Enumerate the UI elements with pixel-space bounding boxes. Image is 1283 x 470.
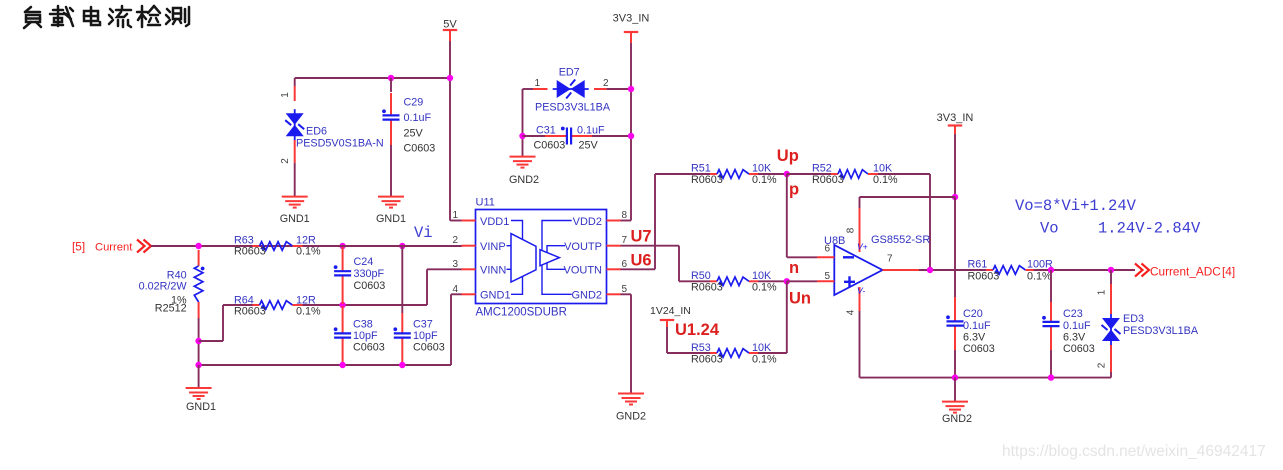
svg-text:1: 1 bbox=[1097, 289, 1108, 295]
wire GND1 rail bbox=[199, 294, 462, 365]
svg-text:PESD5V0S1BA-N: PESD5V0S1BA-N bbox=[296, 138, 384, 150]
net label n bbox=[789, 259, 799, 277]
formula text Vo range bbox=[1040, 220, 1201, 238]
wire ED6 to GND1 bbox=[294, 163, 296, 197]
svg-text:25V: 25V bbox=[404, 128, 424, 140]
svg-text:6.3V: 6.3V bbox=[963, 332, 986, 344]
port [5] Current bbox=[72, 240, 151, 254]
svg-text:Up: Up bbox=[777, 147, 799, 165]
resistor R64 12R bbox=[234, 295, 321, 318]
ground GND1 under ED6 bbox=[280, 197, 310, 225]
svg-text:4: 4 bbox=[846, 309, 857, 315]
wire 3V3_IN right vertical bbox=[954, 134, 956, 197]
net label Vi bbox=[414, 224, 433, 242]
wire R61 to output port bbox=[1034, 269, 1136, 271]
svg-text:GND2: GND2 bbox=[571, 290, 602, 302]
title text 负载电流检测 bbox=[24, 6, 189, 28]
svg-text:GND2: GND2 bbox=[616, 411, 646, 423]
svg-text:R0603: R0603 bbox=[968, 271, 1000, 283]
svg-text:C0603: C0603 bbox=[1063, 343, 1095, 355]
svg-text:GND1: GND1 bbox=[280, 213, 310, 225]
svg-text:VOUTP: VOUTP bbox=[564, 241, 602, 253]
svg-text:GND2: GND2 bbox=[942, 413, 972, 425]
resistor R51 10K bbox=[691, 163, 777, 187]
wire Current input bbox=[151, 245, 462, 247]
wire U11 pin5 to GND2 bbox=[621, 294, 632, 393]
svg-text:2: 2 bbox=[603, 78, 609, 89]
junction 5V-vertical bbox=[447, 75, 453, 81]
svg-text:6: 6 bbox=[824, 244, 830, 255]
svg-text:R52: R52 bbox=[812, 163, 832, 175]
svg-text:0.02R/2W: 0.02R/2W bbox=[139, 281, 188, 293]
svg-text:R50: R50 bbox=[691, 270, 711, 282]
wire ED7 left vertical bbox=[522, 89, 524, 157]
wire 5V horizontal rail to ED6/C29 bbox=[295, 78, 450, 86]
svg-text:C24: C24 bbox=[354, 256, 374, 268]
wire U11 pin6 to R51 bbox=[621, 174, 711, 269]
op-amp U11 AMC1200SDUBR bbox=[462, 197, 621, 319]
svg-text:0.1uF: 0.1uF bbox=[404, 112, 432, 124]
svg-text:U6: U6 bbox=[631, 252, 652, 270]
svg-text:C0603: C0603 bbox=[354, 280, 386, 292]
junction C37 top bbox=[399, 243, 405, 249]
wire C29 to GND1 bbox=[390, 145, 392, 197]
capacitor C23 0.1uF bbox=[1042, 270, 1095, 378]
net label Un bbox=[789, 290, 811, 308]
svg-text:330pF: 330pF bbox=[354, 268, 385, 280]
wire R63 to pin2 bbox=[303, 245, 463, 247]
svg-text:3: 3 bbox=[452, 259, 458, 270]
svg-text:Current: Current bbox=[95, 242, 133, 254]
wire R64 to U11 pin3 bbox=[303, 269, 463, 305]
svg-text:U7: U7 bbox=[631, 228, 652, 246]
junction ED7-3V3_IN bbox=[628, 86, 634, 92]
wire GND2 rail right bbox=[860, 377, 1112, 379]
ground GND1 bottom left bbox=[186, 388, 216, 413]
svg-text:GND1: GND1 bbox=[186, 401, 216, 413]
svg-text:C23: C23 bbox=[1063, 308, 1083, 320]
watermark bbox=[1002, 443, 1266, 460]
svg-text:Vo=8*Vi+1.24V: Vo=8*Vi+1.24V bbox=[1015, 197, 1137, 215]
svg-text:V-: V- bbox=[857, 286, 865, 296]
wire R53 to 1V24_IN bbox=[667, 327, 710, 353]
svg-text:VDD1: VDD1 bbox=[480, 216, 509, 228]
svg-text:R0603: R0603 bbox=[234, 306, 266, 318]
svg-text:C29: C29 bbox=[404, 97, 424, 109]
svg-text:https://blog.csdn.net/weixin_4: https://blog.csdn.net/weixin_46942417 bbox=[1002, 443, 1266, 460]
svg-text:1V24_IN: 1V24_IN bbox=[650, 305, 691, 317]
svg-text:[4]: [4] bbox=[1222, 265, 1235, 279]
svg-text:4: 4 bbox=[452, 284, 458, 295]
junction C24 top bbox=[339, 243, 345, 249]
svg-text:ED6: ED6 bbox=[306, 126, 327, 138]
wire V- to GND rail bbox=[859, 311, 861, 378]
junction output-feedback bbox=[927, 267, 933, 273]
wire R50 to node n bbox=[758, 280, 787, 282]
svg-text:VINP: VINP bbox=[480, 241, 506, 253]
svg-text:R0603: R0603 bbox=[691, 354, 723, 366]
svg-text:0.1%: 0.1% bbox=[296, 306, 321, 318]
wire V+ supply to op-amp pin8 bbox=[860, 197, 956, 208]
svg-text:GND2: GND2 bbox=[509, 174, 539, 186]
junction V+ supply bbox=[952, 194, 958, 200]
net label U7 bbox=[631, 228, 652, 246]
svg-text:AMC1200SDUBR: AMC1200SDUBR bbox=[476, 307, 567, 319]
power symbol 3V3_IN left bbox=[613, 13, 650, 44]
resistor R53 10K bbox=[691, 342, 777, 366]
junction rail-C20-GND2 bbox=[952, 374, 958, 380]
svg-text:GND1: GND1 bbox=[376, 213, 406, 225]
svg-text:GND1: GND1 bbox=[480, 290, 511, 302]
net label p bbox=[789, 181, 799, 199]
svg-text:VOUTN: VOUTN bbox=[564, 265, 603, 277]
svg-text:VINN: VINN bbox=[480, 265, 506, 277]
svg-text:R0603: R0603 bbox=[234, 246, 266, 258]
svg-text:R61: R61 bbox=[968, 259, 988, 271]
power symbol 5V bbox=[443, 19, 458, 42]
wire node n to op-amp pin5 bbox=[787, 280, 817, 282]
svg-text:10pF: 10pF bbox=[413, 330, 438, 342]
svg-text:6.3V: 6.3V bbox=[1063, 332, 1086, 344]
svg-text:3V3_IN: 3V3_IN bbox=[613, 13, 650, 25]
svg-text:5: 5 bbox=[622, 284, 628, 295]
svg-text:C38: C38 bbox=[353, 319, 373, 331]
svg-text:2: 2 bbox=[452, 235, 458, 246]
svg-text:10K: 10K bbox=[752, 342, 772, 354]
svg-text:5: 5 bbox=[824, 271, 830, 282]
ground GND2 under U11 bbox=[616, 394, 646, 423]
svg-text:C31: C31 bbox=[536, 125, 556, 137]
power symbol 3V3_IN right bbox=[937, 112, 974, 134]
svg-text:25V: 25V bbox=[579, 140, 599, 152]
ground GND2 under op-amp bbox=[942, 402, 972, 425]
svg-text:U11: U11 bbox=[476, 197, 495, 209]
svg-text:R2512: R2512 bbox=[155, 303, 187, 315]
svg-text:Vi: Vi bbox=[414, 224, 433, 242]
wire GND2 stem right bbox=[954, 378, 956, 402]
svg-text:3V3_IN: 3V3_IN bbox=[937, 112, 974, 124]
svg-text:[5]: [5] bbox=[72, 240, 85, 254]
svg-text:0.1%: 0.1% bbox=[873, 174, 898, 186]
svg-text:C37: C37 bbox=[413, 319, 433, 331]
svg-text:C0603: C0603 bbox=[963, 343, 995, 355]
svg-text:8: 8 bbox=[846, 227, 857, 233]
net label Up bbox=[777, 147, 799, 165]
junction rail-R40 bbox=[195, 362, 201, 368]
svg-text:0.1%: 0.1% bbox=[1027, 271, 1052, 283]
svg-text:C0603: C0603 bbox=[353, 342, 385, 354]
svg-text:p: p bbox=[789, 181, 799, 199]
wire GND1 stem bbox=[198, 365, 200, 388]
formula text Vo=8*Vi+1.24V bbox=[1015, 197, 1137, 215]
junction node Up bbox=[784, 171, 790, 177]
svg-text:1: 1 bbox=[280, 92, 291, 98]
svg-text:VDD2: VDD2 bbox=[573, 216, 602, 228]
svg-text:2: 2 bbox=[280, 158, 291, 164]
svg-text:0.1%: 0.1% bbox=[752, 174, 777, 186]
wire node p to op-amp pin6 bbox=[787, 174, 817, 257]
svg-text:U1.24: U1.24 bbox=[675, 321, 720, 339]
junction 5V-C29 bbox=[388, 75, 394, 81]
wire 5V vertical to U11 pin1 bbox=[450, 41, 462, 221]
svg-text:C20: C20 bbox=[963, 308, 983, 320]
svg-text:0.1%: 0.1% bbox=[296, 246, 321, 258]
diode ED3 PESD3V3L1BA bbox=[1097, 270, 1199, 378]
junction ED3 top bbox=[1108, 267, 1114, 273]
svg-text:0.1%: 0.1% bbox=[752, 282, 777, 294]
wire R52 to output (feedback) bbox=[878, 174, 930, 270]
svg-text:1: 1 bbox=[452, 210, 458, 221]
svg-text:0.1uF: 0.1uF bbox=[1063, 320, 1091, 332]
pin numbers U8B bbox=[824, 227, 893, 315]
svg-text:n: n bbox=[789, 259, 799, 277]
port Current_ADC [4] bbox=[1135, 264, 1235, 279]
net label U6 bbox=[631, 252, 652, 270]
svg-text:R0603: R0603 bbox=[691, 282, 723, 294]
resistor R61 100R bbox=[968, 259, 1054, 283]
svg-text:1: 1 bbox=[535, 78, 541, 89]
wire R64 left leg bbox=[199, 305, 253, 341]
resistor R52 10K feedback bbox=[787, 163, 898, 187]
net label U1.24 bbox=[675, 321, 720, 339]
capacitor C20 0.1uF bbox=[946, 197, 995, 378]
svg-text:0.1uF: 0.1uF bbox=[963, 320, 991, 332]
pin numbers U11 left bbox=[452, 210, 458, 295]
resistor R40 0.02R/2W shunt bbox=[139, 250, 205, 318]
svg-text:0.1%: 0.1% bbox=[752, 354, 777, 366]
svg-text:10pF: 10pF bbox=[353, 330, 378, 342]
capacitor C29 0.1uF bbox=[382, 78, 435, 155]
diode ED6 PESD5V0S1BA-N bbox=[280, 86, 384, 164]
wire R40 bottom bbox=[198, 318, 200, 365]
capacitor C24 330pF bbox=[334, 247, 386, 304]
pin numbers U11 right bbox=[622, 210, 628, 295]
capacitor C37 10pF bbox=[393, 246, 444, 364]
junction C31-3V3_IN bbox=[628, 133, 634, 139]
svg-text:GS8552-SR: GS8552-SR bbox=[871, 234, 930, 246]
power symbol 1V24_IN bbox=[650, 305, 691, 327]
junction C31 left bbox=[519, 133, 525, 139]
svg-text:2: 2 bbox=[1097, 362, 1108, 368]
svg-text:C0603: C0603 bbox=[534, 140, 566, 152]
svg-text:1.24V-2.84V: 1.24V-2.84V bbox=[1098, 220, 1201, 238]
junction rail-C38 bbox=[339, 362, 345, 368]
ground GND1 under C29 bbox=[376, 197, 406, 225]
junction rail-C37 bbox=[399, 362, 405, 368]
svg-text:ED7: ED7 bbox=[559, 67, 580, 79]
svg-text:10K: 10K bbox=[752, 163, 772, 175]
svg-text:R51: R51 bbox=[691, 163, 711, 175]
svg-text:Un: Un bbox=[789, 290, 811, 308]
junction node n bbox=[784, 278, 790, 284]
wire op-amp output bbox=[919, 269, 986, 271]
capacitor C31 0.1uF 25V bbox=[523, 125, 632, 152]
ground GND2 under ED7/C31 bbox=[509, 157, 539, 186]
svg-text:PESD3V3L1BA: PESD3V3L1BA bbox=[535, 102, 611, 114]
diode ED7 PESD3V3L1BA bbox=[523, 67, 632, 114]
svg-text:R0603: R0603 bbox=[691, 174, 723, 186]
svg-text:V+: V+ bbox=[857, 242, 868, 252]
junction R40-R64 bbox=[195, 338, 201, 344]
svg-text:PESD3V3L1BA: PESD3V3L1BA bbox=[1123, 325, 1199, 337]
svg-text:7: 7 bbox=[622, 235, 628, 246]
capacitor C38 10pF bbox=[334, 306, 385, 364]
svg-text:10K: 10K bbox=[873, 163, 893, 175]
wire R51 to node p bbox=[758, 173, 787, 175]
svg-text:0.1uF: 0.1uF bbox=[577, 125, 605, 137]
svg-text:Current_ADC: Current_ADC bbox=[1150, 265, 1221, 279]
svg-text:7: 7 bbox=[887, 254, 893, 265]
svg-text:5V: 5V bbox=[443, 19, 457, 31]
junction C24-C38-R64 bbox=[339, 302, 345, 308]
resistor R63 12R bbox=[234, 235, 321, 258]
svg-text:R0603: R0603 bbox=[812, 174, 844, 186]
svg-text:ED3: ED3 bbox=[1123, 313, 1144, 325]
svg-text:10K: 10K bbox=[752, 270, 772, 282]
svg-text:6: 6 bbox=[622, 259, 628, 270]
junction C23 top bbox=[1048, 267, 1054, 273]
junction R40 top bbox=[195, 243, 201, 249]
svg-text:8: 8 bbox=[622, 210, 628, 221]
wire 3V3_IN vertical to U11 pin8 bbox=[619, 43, 631, 221]
resistor R50 10K bbox=[691, 270, 777, 294]
wire U11 pin7 to R50 bbox=[621, 246, 711, 282]
op-amp U8B GS8552-SR bbox=[817, 208, 930, 311]
svg-text:C0603: C0603 bbox=[413, 342, 445, 354]
wire node n to R53 bbox=[758, 281, 787, 353]
junction rail-C23 bbox=[1048, 374, 1054, 380]
svg-text:C0603: C0603 bbox=[404, 143, 436, 155]
svg-text:Vo: Vo bbox=[1040, 220, 1059, 238]
